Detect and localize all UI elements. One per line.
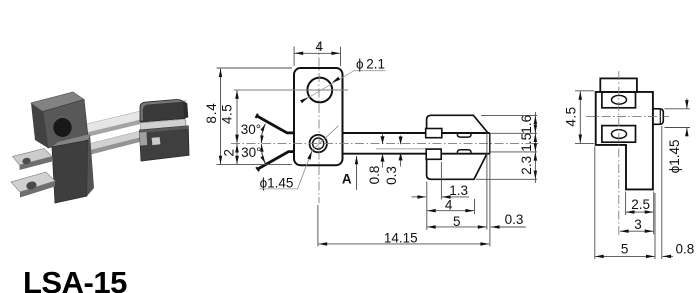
centerline vertical (side view) [618, 71, 620, 235]
centerline horizontal through big hole [234, 89, 349, 91]
lower terminal dimple [457, 150, 471, 154]
big hole (LED) circle dia 2.1 [307, 78, 332, 103]
photo sensor hole [53, 118, 71, 137]
svg-text:0.3: 0.3 [505, 212, 524, 227]
dimension 4.5 (hole centers) [236, 90, 238, 143]
photo right block clip [140, 132, 148, 146]
photo metal strip upper rail [84, 100, 186, 133]
svg-text:4: 4 [316, 39, 324, 54]
photo right bottom block [140, 126, 190, 161]
dimension dia 2.1 leader [303, 71, 354, 101]
svg-text:4: 4 [445, 197, 453, 212]
dimension dia 1.45 (side view boss) [665, 108, 691, 110]
svg-text:14.15: 14.15 [384, 230, 418, 245]
photo blade 2 hole [25, 180, 37, 190]
photo right cap side face [184, 101, 189, 119]
lower terminal outline [427, 154, 487, 179]
svg-text:5: 5 [621, 241, 629, 256]
dimension 14.15 (overall length) [317, 205, 319, 247]
svg-text:2: 2 [222, 149, 237, 157]
front view body outline [294, 68, 343, 165]
side view lower hole slot [602, 126, 636, 143]
svg-text:1.5: 1.5 [519, 133, 534, 152]
top contact lever [257, 116, 295, 133]
photo head block top face [31, 92, 84, 112]
upper terminal outline [427, 115, 488, 133]
photo terminal blade 1 [13, 149, 53, 166]
blade bar to terminals [343, 132, 490, 134]
svg-text:5: 5 [453, 214, 461, 229]
svg-text:0.3: 0.3 [384, 166, 399, 185]
dimension 4 (terminal flat length) [474, 199, 476, 214]
svg-text:A: A [342, 171, 352, 186]
upper terminal crimp rectangle [426, 129, 442, 138]
svg-text:30°: 30° [241, 145, 261, 160]
side view boss dia 1.45 [653, 109, 663, 125]
photo terminal blade 2 [11, 172, 55, 192]
dimension 0.8 (blade offset) [382, 134, 384, 144]
dimension 0.3 (blade protrusion) [489, 154, 491, 246]
svg-text:3: 3 [634, 217, 642, 232]
centerline vertical (front view) [318, 42, 320, 203]
photo head block left face [31, 103, 48, 148]
dimension 4 (top width) [293, 47, 295, 67]
side view upper hole slot [602, 92, 636, 108]
svg-text:4.5: 4.5 [220, 104, 235, 124]
dimension 1.6 1.5 2.3 (terminal stack heights) [481, 114, 537, 116]
small mounting hole dia 1.45 double ring [310, 135, 327, 152]
side view body outline [596, 92, 653, 189]
blade thin edge line [376, 148, 440, 150]
datum label A with arrow [356, 156, 358, 190]
svg-text:1.6: 1.6 [519, 115, 534, 134]
photo right cap [140, 99, 185, 122]
dimension 2 (lower left) [236, 144, 238, 164]
bottom contact lever [258, 152, 295, 169]
svg-text:0.8: 0.8 [367, 166, 382, 185]
svg-text:4.5: 4.5 [564, 106, 579, 126]
svg-text:2.3: 2.3 [519, 156, 534, 175]
svg-text:ϕ 2.1: ϕ 2.1 [356, 56, 385, 71]
dimension 1.3 (terminal edge to crimp) [440, 162, 442, 200]
side view head block [600, 78, 637, 92]
dimension 0.8 (boss protrusion) [661, 126, 663, 259]
dimension 5 (terminal length) [426, 182, 428, 231]
svg-text:ϕ1.45: ϕ1.45 [667, 139, 682, 173]
dimension 8.4 (left overall height) [217, 67, 293, 69]
dimension 5 (side overall width) [594, 147, 596, 260]
dimension 0.3 (blade thickness) [400, 136, 402, 145]
photo head block front face with sensor hole [43, 100, 88, 149]
svg-text:1.3: 1.3 [449, 183, 468, 198]
upper terminal dimple [457, 133, 471, 137]
centerline horizontal (side view) [586, 116, 669, 118]
svg-text:2.5: 2.5 [631, 197, 650, 212]
lower terminal crimp rectangle [426, 149, 441, 159]
svg-text:ϕ1.45: ϕ1.45 [260, 176, 294, 191]
dimension 3 (center to edge) [653, 192, 655, 235]
photo middle block front face [52, 140, 88, 203]
photo right metal gap [140, 119, 186, 130]
photo: 3D product image of LSA-15 sensor [11, 92, 189, 203]
svg-text:0.8: 0.8 [676, 241, 695, 256]
photo middle block top face [52, 134, 90, 147]
photo middle block right face [87, 134, 94, 196]
photo blade 1 hole [22, 157, 32, 165]
product title LSA-15 [23, 265, 127, 293]
dimension 2.5 (leg width) [625, 192, 627, 216]
photo metal strip lower rail [84, 120, 186, 152]
centerline horizontal (front view) [231, 143, 540, 145]
dimension 4.5 (side view) [575, 90, 594, 92]
svg-text:8.4: 8.4 [204, 102, 219, 123]
svg-text:30°: 30° [241, 122, 261, 137]
